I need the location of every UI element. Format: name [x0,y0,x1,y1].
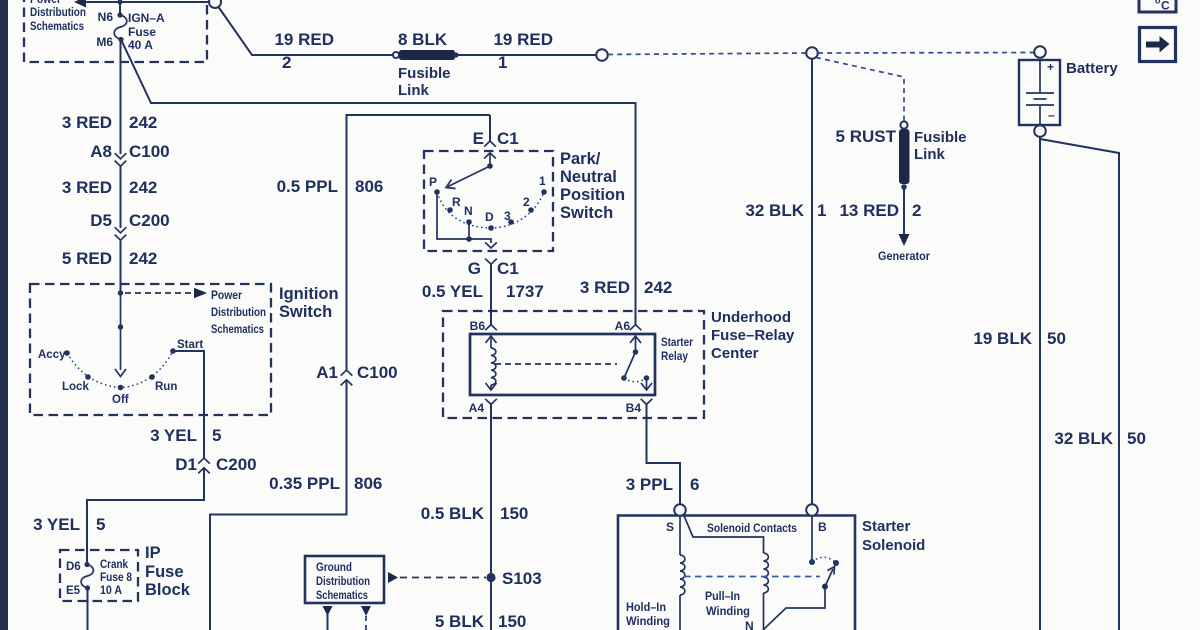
svg-text:1: 1 [817,201,826,220]
svg-text:50: 50 [1127,429,1146,448]
wire 3 RED 242 (C100 to C200) [62,166,170,230]
svg-text:Run: Run [155,381,177,393]
svg-text:10 A: 10 A [100,585,122,597]
svg-text:N6: N6 [98,10,114,24]
solenoid terminal B [806,504,827,534]
svg-text:5: 5 [96,515,105,534]
svg-text:19 RED: 19 RED [274,30,334,49]
svg-text:Ignition: Ignition [279,285,339,303]
wire 19 RED 2 [219,7,395,72]
connector B4 [626,399,653,415]
svg-text:5 RUST: 5 RUST [836,127,897,146]
svg-text:A4: A4 [469,401,485,415]
svg-text:150: 150 [500,504,528,523]
wire 3 PPL 6 (B4 to solenoid S) [626,404,700,504]
svg-text:C1: C1 [497,259,519,278]
power distribution reference box (top-left) [24,0,207,62]
svg-text:3 RED: 3 RED [62,178,112,197]
hold-in winding [626,516,685,630]
svg-text:N: N [464,204,473,218]
connector B6 [470,319,497,348]
wire 32 BLK 1 [745,59,826,505]
svg-text:0.5 BLK: 0.5 BLK [421,504,485,523]
svg-text:1: 1 [498,53,507,72]
svg-text:Underhood: Underhood [711,309,791,326]
svg-text:806: 806 [355,177,383,196]
connector C1 pin E [473,115,519,166]
label: Power Distribution Schematics (top-left) [30,0,86,33]
svg-text:3 RED: 3 RED [62,113,112,132]
wire 0.5 YEL 1737 [422,264,544,324]
arrow to power distribution schematics (points left) [74,0,209,8]
splice S103 [486,569,541,588]
svg-text:3 RED: 3 RED [580,278,630,297]
svg-text:C: C [1161,0,1170,13]
svg-text:B: B [818,520,827,534]
fuse Crank 10 A [66,559,133,597]
connector C100 pin A1 [341,370,353,385]
svg-text:242: 242 [644,278,672,297]
svg-text:Fuse: Fuse [128,25,156,39]
fusible link 5 RUST [836,127,967,190]
svg-text:D5: D5 [90,211,112,230]
svg-text:0.5 PPL: 0.5 PPL [277,177,338,196]
svg-text:S: S [666,520,674,534]
svg-text:Fuse: Fuse [145,563,184,581]
svg-text:242: 242 [129,113,157,132]
svg-text:Starter: Starter [862,518,911,535]
relay switch [621,349,652,390]
svg-text:3 PPL: 3 PPL [626,475,673,494]
svg-text:C100: C100 [129,142,170,161]
node: small circle at fusible link top [900,121,907,128]
svg-text:Accy: Accy [38,349,66,361]
svg-text:C200: C200 [216,455,257,474]
park/neutral contacts and arc [429,174,547,231]
wire 5 RED 242 (C200 to ignition switch) [62,240,157,293]
svg-text:2: 2 [282,53,291,72]
starter relay box [470,334,693,395]
svg-text:5 BLK: 5 BLK [435,612,485,630]
ground distribution reference box [305,556,384,603]
svg-text:Schematics: Schematics [30,21,84,33]
ground wire (solid) below ground box [323,606,333,630]
svg-text:Switch: Switch [560,204,613,222]
svg-text:A1: A1 [316,363,338,382]
solenoid actuation dashed link [684,576,820,578]
svg-text:Crank: Crank [100,559,129,571]
svg-text:Block: Block [145,581,191,599]
svg-text:Distribution: Distribution [30,7,86,19]
svg-text:50: 50 [1047,329,1066,348]
svg-text:0.5 YEL: 0.5 YEL [422,282,483,301]
solenoid moving contact to N [745,567,835,630]
svg-text:2: 2 [523,195,530,209]
wire 0.35 PPL 806 [210,380,382,630]
svg-text:Power: Power [211,290,242,302]
svg-text:Ground: Ground [316,562,352,574]
ignition switch contacts and arc [38,339,203,406]
svg-text:40 A: 40 A [128,38,153,52]
svg-text:Winding: Winding [626,616,670,628]
svg-text:5: 5 [212,426,221,445]
node inside ignition switch [118,290,123,295]
svg-text:Distribution: Distribution [316,576,370,588]
wire 0.5 PPL 806 [277,115,490,382]
svg-text:S103: S103 [502,569,542,588]
IP fuse block box [60,550,138,601]
svg-text:Schematics: Schematics [211,324,264,336]
fuse IGN-A 40 A [96,10,165,52]
svg-text:IP: IP [145,544,161,562]
label 3 YEL 5 [150,426,257,474]
svg-text:IGN–A: IGN–A [128,11,165,25]
relay actuation dashed link [495,363,617,365]
svg-text:P: P [429,175,437,189]
svg-text:Link: Link [914,146,945,163]
node: open circle [596,49,608,61]
solenoid B contact [809,516,839,566]
svg-text:242: 242 [129,178,157,197]
relay coil [486,348,497,390]
svg-text:B6: B6 [470,319,486,333]
starter solenoid box [618,516,925,630]
wire 3 YEL 5 to IP fuse block [33,468,204,563]
svg-text:Lock: Lock [62,381,89,393]
svg-text:13 RED: 13 RED [839,201,899,220]
dashed wire from ground box to S103 [388,572,486,583]
svg-text:C100: C100 [357,363,398,382]
svg-text:Pull–In: Pull–In [705,591,740,603]
dashed arrow to power distribution schematics [125,288,266,336]
svg-text:3: 3 [504,209,511,223]
label: Ignition Switch [279,285,339,321]
svg-text:D1: D1 [175,455,197,474]
underhood fuse-relay center box [443,311,704,418]
svg-text:Starter: Starter [661,337,693,349]
left page edge bar [0,0,8,630]
svg-text:8 BLK: 8 BLK [398,30,448,49]
park/neutral position switch box [424,151,553,251]
svg-text:Schematics: Schematics [316,590,368,602]
svg-text:Fuse–Relay: Fuse–Relay [711,327,795,344]
wire 0.5 BLK 150 [421,504,529,523]
node at fuse feed [117,0,122,5]
svg-text:242: 242 [129,249,157,268]
svg-text:1: 1 [539,174,546,188]
park contact output wire [437,192,497,248]
svg-text:0.35 PPL: 0.35 PPL [269,474,340,493]
svg-text:G: G [468,259,481,278]
svg-text:D6: D6 [66,561,81,573]
svg-text:C1: C1 [497,129,519,148]
battery [1019,46,1118,137]
connector C200 pin D5 [115,227,127,240]
svg-text:Hold–In: Hold–In [626,602,666,614]
wire from Start contact [173,351,204,458]
svg-text:B4: B4 [626,401,642,415]
dashed wire to node [608,53,806,55]
svg-text:Generator: Generator [878,249,930,263]
svg-text:1737: 1737 [506,282,544,301]
svg-text:Neutral: Neutral [560,168,617,186]
node: open circle above starter wire [806,47,818,59]
svg-text:Link: Link [398,82,429,99]
svg-text:2: 2 [912,201,921,220]
fusible link 8 BLK [393,30,459,99]
wire 5 BLK 150 [435,577,527,630]
svg-text:Position: Position [560,186,625,204]
svg-text:Power: Power [30,0,61,6]
svg-text:Battery: Battery [1066,60,1118,77]
solenoid terminal S [666,504,686,534]
svg-text:Fusible: Fusible [914,129,967,146]
connector C100 pin A8 [115,153,127,166]
legend box (cut off, degrees C) [1139,0,1176,13]
connector A4 [469,399,497,573]
svg-text:C200: C200 [129,211,170,230]
svg-text:32 BLK: 32 BLK [1054,429,1113,448]
svg-text:150: 150 [498,612,526,630]
svg-text:Relay: Relay [661,351,689,363]
svg-text:Solenoid Contacts: Solenoid Contacts [707,523,797,535]
wire 19 RED 1 [458,30,596,72]
svg-text:A6: A6 [615,319,631,333]
svg-text:6: 6 [690,475,699,494]
svg-text:D: D [485,210,494,224]
pull-in winding branch [684,515,769,630]
svg-text:806: 806 [354,474,382,493]
svg-text:Off: Off [112,394,129,406]
svg-text:Center: Center [711,345,759,362]
wire below crank fuse [87,588,89,630]
svg-text:Distribution: Distribution [211,307,266,319]
dashed wire to battery [818,52,1034,55]
svg-text:Start: Start [177,339,203,351]
wire 3 RED 242 (fuse to underhood A6) [121,40,672,325]
svg-text:E5: E5 [66,585,81,597]
connector C200 pin D1 [198,458,210,473]
svg-text:E: E [473,129,484,148]
wire into fuse [119,2,121,15]
connector A6 [615,319,642,352]
ground wire (dashed) below ground box [361,606,371,630]
svg-text:3 YEL: 3 YEL [33,515,80,534]
svg-text:32 BLK: 32 BLK [745,201,804,220]
svg-text:–: – [1048,108,1055,122]
svg-text:19 BLK: 19 BLK [973,329,1032,348]
node: circle at top feed [209,0,221,8]
ignition switch box [30,284,271,415]
dashed wire to 5 RUST fusible link [816,58,904,122]
connector C1 pin G [468,259,519,278]
label: IP Fuse Block [145,544,191,599]
ignition switch wiper arm [115,293,126,377]
wire 32 BLK 50 [1040,139,1146,630]
svg-text:5 RED: 5 RED [62,249,112,268]
svg-text:N: N [745,619,754,630]
svg-text:3 YEL: 3 YEL [150,426,197,445]
svg-text:o: o [1155,0,1161,6]
svg-text:19 RED: 19 RED [493,30,553,49]
wire 13 RED 2 to generator [839,187,930,263]
wire 3 RED 242 (fuse to C100) [62,40,170,162]
svg-text:A8: A8 [90,142,112,161]
wire 19 BLK 50 [973,137,1066,630]
svg-text:+: + [1047,60,1054,74]
svg-text:Winding: Winding [706,606,750,618]
svg-text:Park/: Park/ [560,150,601,168]
svg-text:R: R [452,195,461,209]
label: Park/Neutral Position Switch [560,150,625,222]
svg-text:Fusible: Fusible [398,65,451,82]
svg-text:M6: M6 [96,35,113,49]
svg-text:Fuse 8: Fuse 8 [100,572,133,584]
park/neutral wiper arrow to P [446,163,493,188]
svg-text:Switch: Switch [279,303,332,321]
label: Underhood Fuse-Relay Center [711,309,795,362]
svg-text:Solenoid: Solenoid [862,537,925,554]
next-page arrow box [1140,28,1176,62]
